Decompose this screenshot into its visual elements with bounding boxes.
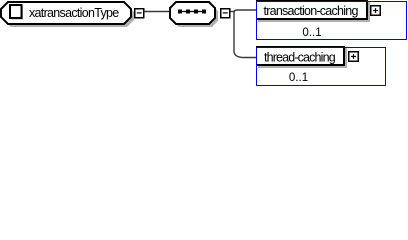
collapse box (minus) left xyxy=(135,9,144,18)
occurrence frame (blue) thread-caching xyxy=(257,48,386,86)
collapse box (minus) right of sequence xyxy=(221,9,230,18)
occurrence frame (blue) transaction-caching xyxy=(257,2,407,40)
complexType box xatransactionType shadow xyxy=(4,5,134,27)
element box transaction-caching interior xyxy=(257,2,366,18)
element box transaction-caching shadow xyxy=(258,2,370,22)
sequence dot 3 xyxy=(194,10,198,14)
element box thread-caching interior xyxy=(257,48,343,64)
element box thread-caching frame xyxy=(256,46,345,66)
element box thread-caching shadow xyxy=(258,48,347,68)
minus sign xyxy=(223,12,228,14)
svg-text:0..1: 0..1 xyxy=(289,72,308,84)
sequence octagon shadow xyxy=(173,5,218,27)
wire stub from minus box to trunk xyxy=(231,11,236,13)
icon square xyxy=(10,5,22,18)
svg-text:thread-caching: thread-caching xyxy=(264,51,336,65)
sequence octagon xyxy=(170,2,215,24)
sequence dot 4 xyxy=(202,10,206,14)
svg-text:transaction-caching: transaction-caching xyxy=(264,4,359,18)
expand box (plus) transaction-caching xyxy=(371,6,381,16)
sequence dot 1 xyxy=(178,10,182,14)
expand box (plus) thread-caching xyxy=(349,52,359,62)
plus sign xyxy=(351,54,356,59)
complexType box xatransactionType xyxy=(1,2,131,24)
minus sign xyxy=(137,12,142,14)
sequence dots connecting line xyxy=(178,11,206,13)
icon shadow xyxy=(12,7,24,20)
svg-text:0..1: 0..1 xyxy=(302,27,321,39)
sequence dot 2 xyxy=(186,10,190,14)
wire from minus box to sequence xyxy=(145,11,171,13)
svg-text:xatransactionType: xatransactionType xyxy=(29,6,119,20)
element box transaction-caching frame xyxy=(256,0,368,20)
plus sign xyxy=(373,8,378,13)
wire trunk with branches xyxy=(234,10,257,58)
